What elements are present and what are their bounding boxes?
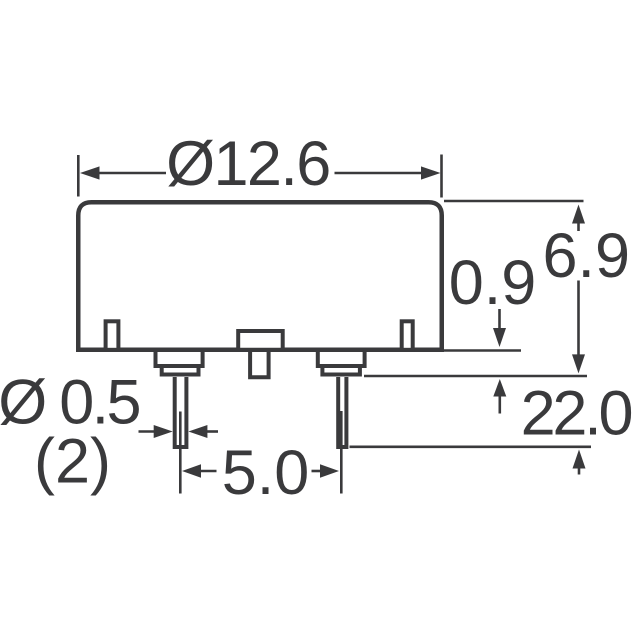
- pin 1 lead: [175, 377, 187, 447]
- dimension 5.0 arrow left: [182, 464, 201, 477]
- svg-text:6.9: 6.9: [543, 221, 631, 291]
- pin 2 lead: [338, 377, 346, 447]
- pin 1 center extension line: [179, 412, 182, 494]
- dimension Ø12.6 line right segment: [335, 172, 424, 175]
- center stub below body: [250, 350, 269, 377]
- dimension Ø12.6 extension line right: [440, 155, 443, 198]
- body bottom extension line right: [444, 349, 521, 352]
- dimension 0.9 arrow up: [493, 379, 506, 397]
- dimension 5.0 arrow right: [320, 464, 339, 477]
- dimension Ø12.6 line left segment: [97, 172, 166, 175]
- svg-text:Ø12.6: Ø12.6: [166, 129, 330, 199]
- pin 1 washer: [162, 366, 199, 375]
- pin 2 center extension line: [340, 411, 343, 494]
- dimension Ø12.6 arrow left: [80, 166, 100, 179]
- svg-text:22.0: 22.0: [521, 379, 632, 449]
- dimension 22.0 arrow up: [573, 450, 586, 469]
- right bottom tab: [402, 321, 413, 350]
- pin 2 washer: [322, 366, 360, 375]
- dimension 0.5 arrow left: [139, 430, 156, 433]
- pin 1 collar: [156, 351, 203, 366]
- component body outline: [78, 202, 442, 350]
- dimension Ø12.6 extension line left: [77, 155, 80, 197]
- dimension 0.5 arrow right: [188, 425, 207, 438]
- svg-text:(2): (2): [34, 427, 111, 497]
- dimension 0.9 arrow down: [498, 309, 501, 331]
- dimension 6.9 arrow down: [572, 354, 585, 373]
- center tab: [238, 331, 283, 350]
- svg-text:5.0: 5.0: [222, 438, 310, 508]
- pin end extension line: [350, 445, 592, 448]
- svg-text:0.9: 0.9: [449, 248, 537, 318]
- seating plane extension line: [364, 375, 587, 378]
- pin 2 collar: [318, 351, 365, 366]
- body top extension line right: [444, 200, 584, 203]
- left bottom tab: [106, 321, 119, 350]
- dimension Ø12.6 arrow right: [421, 166, 441, 179]
- dimension 6.9 line lower segment: [577, 281, 580, 358]
- dimension 6.9 arrow up: [577, 220, 580, 231]
